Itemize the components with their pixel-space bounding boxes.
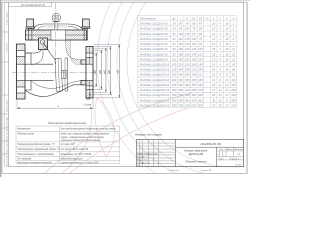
svg-text:-: - (207, 99, 208, 102)
svg-text:корпусные детали — сталь 20Л: корпусные детали — сталь 20Л (61, 162, 99, 165)
disc nut (61, 71, 66, 79)
leader: bolt holes "d 6 отв" (89, 93, 91, 98)
svg-text:Масштаб: Масштаб (235, 149, 244, 151)
bonnet cover (34, 24, 83, 30)
svg-text:-: - (207, 53, 208, 56)
svg-text:до плюс 225: до плюс 225 (61, 143, 75, 146)
svg-text:⌀18: ⌀18 (86, 98, 91, 101)
svg-text:от минус 40 до плюс 50: от минус 40 до плюс 50 (61, 148, 89, 151)
valve body bottom profile (25, 85, 86, 97)
svg-text:Подп.: Подп. (148, 153, 154, 155)
svg-text:-: - (207, 89, 208, 92)
watermark blue arcs (97, 0, 320, 197)
svg-text:Подп. и дата: Подп. и дата (7, 99, 9, 112)
svg-text:Масса: Масса (227, 149, 234, 151)
svg-text:-: - (207, 38, 208, 41)
svg-text:среды, неагрессивные к материа: среды, неагрессивные к материалам (61, 136, 104, 139)
svg-text:Петров: Петров (143, 159, 150, 161)
svg-text:Температура рабочей среды, °С: Температура рабочей среды, °С (17, 143, 55, 146)
bonnet flange (hatched) (26, 30, 87, 40)
svg-text:Присоединение к трубопроводу: Присоединение к трубопроводу (17, 153, 54, 156)
svg-text:корпусных деталей и уплотнения: корпусных деталей и уплотнения (61, 139, 101, 142)
watermark pink curves (44, 93, 192, 174)
left margin column (4, 2, 6, 167)
svg-text:-: - (207, 94, 208, 97)
svg-text:у: у (218, 154, 219, 156)
svg-text:-: - (207, 69, 208, 72)
bonnet cover section hatch (44, 24, 68, 27)
svg-text:Копировал: Копировал (169, 170, 180, 172)
svg-text:КО 19ч16бр-50.00 СБ: КО 19ч16бр-50.00 СБ (21, 4, 45, 7)
dimension L (16, 100, 18, 110)
svg-text:19ч16бр-50 СБ: 19ч16бр-50 СБ (200, 142, 221, 146)
stud bolt left (27, 19, 34, 27)
svg-text:самодействующий: самодействующий (61, 158, 83, 161)
svg-text:-: - (207, 33, 208, 36)
valve drawing (17, 13, 94, 99)
svg-text:Тип привода: Тип привода (17, 158, 32, 161)
svg-text:Пров.: Пров. (137, 159, 143, 161)
designation box (graph 26) (9, 2, 52, 7)
svg-text:-: - (207, 28, 208, 31)
top cap/plug (54, 22, 57, 31)
svg-text:-: - (207, 48, 208, 51)
hinge pin boss (39, 38, 48, 50)
svg-text:-: - (207, 104, 208, 107)
svg-text:Листов 1: Листов 1 (231, 158, 239, 160)
title block (137, 139, 244, 166)
seat ring (65, 58, 68, 91)
paper background (0, 0, 250, 177)
neck wall hatch (66, 41, 86, 64)
right flange (section) (86, 47, 93, 99)
svg-text:-: - (207, 23, 208, 26)
left flange hub (25, 53, 31, 90)
svg-text:-: - (207, 43, 208, 46)
centerline vertical (55, 3, 57, 64)
sheet frame (2, 1, 247, 3)
dimension table grid (138, 16, 237, 108)
svg-text:а2 ТУУ: а2 ТУУ (235, 165, 242, 167)
svg-text:Иванов: Иванов (143, 157, 149, 159)
svg-text:-: - (207, 79, 208, 82)
svg-text:Температура окружающей среды,: Температура окружающей среды, °С (17, 148, 60, 151)
svg-text:Лит.: Лит. (220, 149, 224, 151)
svg-text:Утв.: Утв. (137, 165, 141, 167)
svg-text:для предотвращения обратного п: для предотвращения обратного потока сред… (61, 127, 116, 130)
svg-text:-: - (207, 74, 208, 77)
dimension lines (diameters) (94, 45, 121, 98)
svg-text:-: - (207, 58, 208, 61)
centerline horizontal (12, 71, 96, 73)
svg-text:Лист: Лист (219, 158, 223, 160)
hinge arm and disc (43, 42, 56, 60)
svg-text:-: - (207, 84, 208, 87)
svg-text:Назначение: Назначение (17, 127, 31, 130)
svg-text:6 отв.: 6 отв. (84, 104, 92, 107)
svg-text:фланцевое по ГОСТ 12815: фланцевое по ГОСТ 12815 (61, 153, 92, 156)
stud bolt right (83, 19, 90, 27)
svg-text:-: - (207, 63, 208, 66)
svg-text:Материал основных деталей: Материал основных деталей (17, 162, 52, 165)
svg-text:Подп. и дата: Подп. и дата (7, 141, 9, 154)
inner drawing frame (9, 2, 244, 167)
valve body neck and bonnet (25, 40, 43, 53)
left flange (section) (17, 44, 26, 99)
svg-text:Рабочая среда: Рабочая среда (17, 133, 34, 136)
right port hub walls (81, 60, 86, 64)
svg-text:вода, пар и другие жидкие и га: вода, пар и другие жидкие и газообразные (61, 133, 110, 136)
svg-text:Перв. примен.: Перв. примен. (7, 11, 9, 25)
